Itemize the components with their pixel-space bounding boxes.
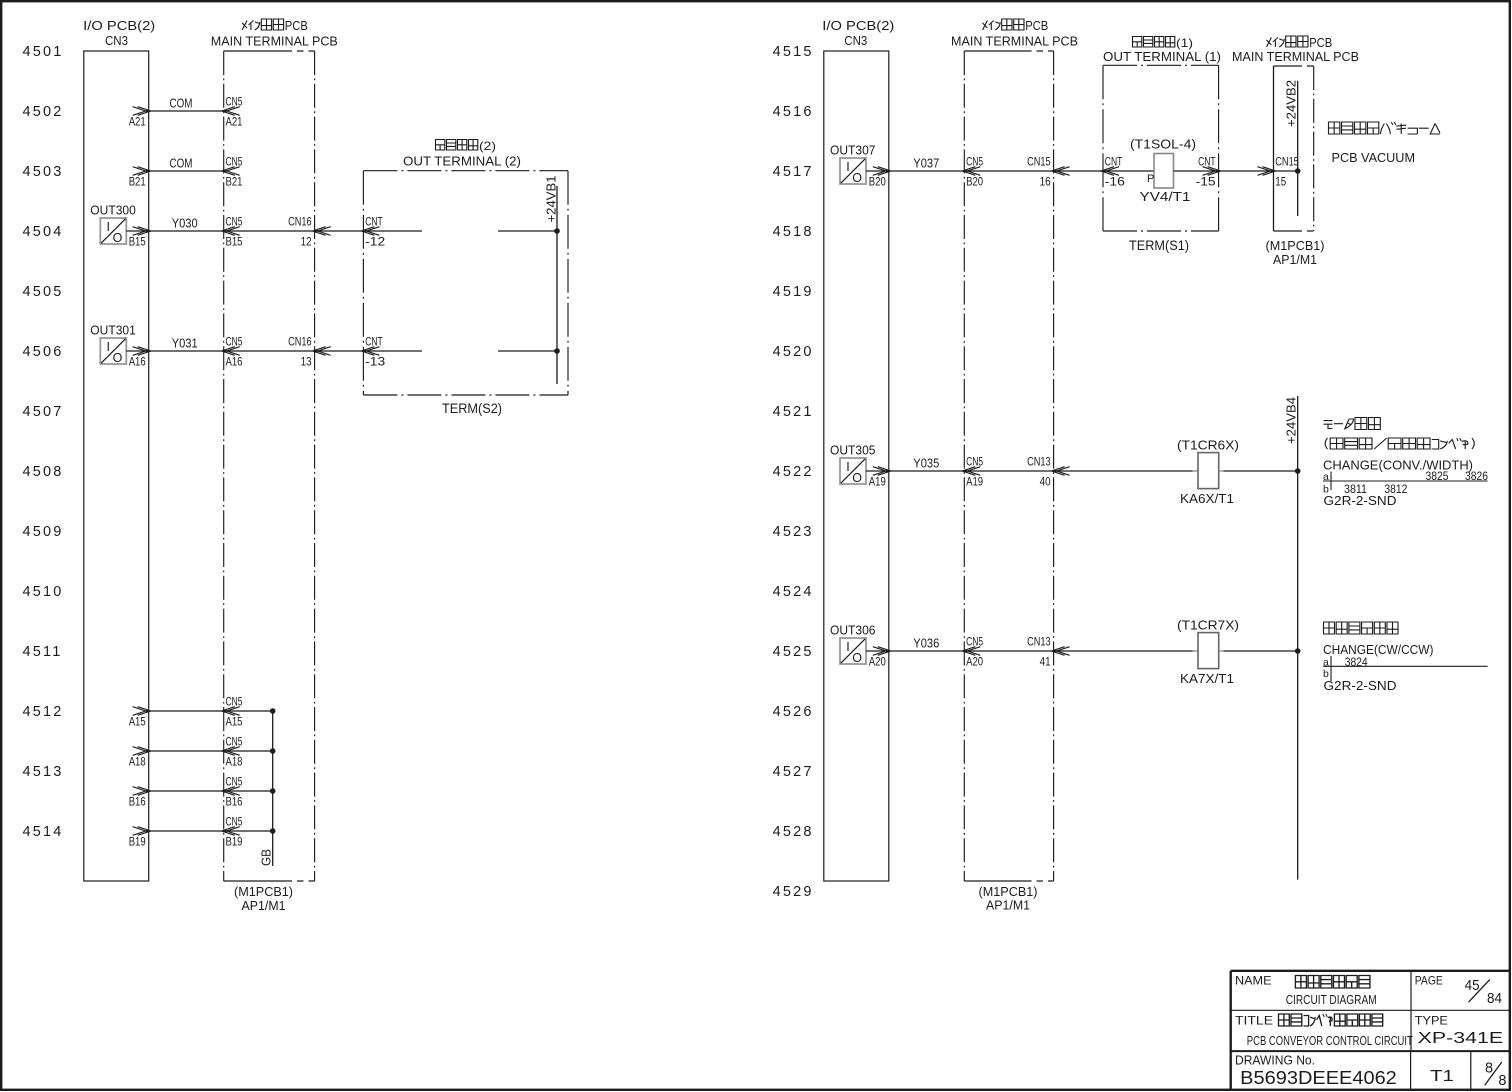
svg-text:CN5: CN5 bbox=[966, 455, 983, 469]
svg-text:O: O bbox=[852, 471, 862, 485]
svg-text:PCB: PCB bbox=[1309, 36, 1332, 50]
svg-text:B5693DEEE4062: B5693DEEE4062 bbox=[1240, 1068, 1397, 1088]
svg-text:4503: 4503 bbox=[23, 164, 64, 180]
svg-text:12: 12 bbox=[301, 235, 312, 249]
svg-text:-16: -16 bbox=[1105, 175, 1125, 189]
svg-text:YV4/T1: YV4/T1 bbox=[1140, 189, 1191, 204]
svg-text:4510: 4510 bbox=[23, 584, 64, 600]
svg-text:4505: 4505 bbox=[23, 284, 64, 300]
svg-text:4528: 4528 bbox=[773, 824, 814, 840]
svg-text:AP1/M1: AP1/M1 bbox=[1273, 252, 1317, 267]
svg-text:CN5: CN5 bbox=[966, 635, 983, 649]
svg-text:CN5: CN5 bbox=[226, 95, 243, 109]
svg-text:A20: A20 bbox=[869, 655, 886, 669]
svg-text:4522: 4522 bbox=[773, 464, 814, 480]
GB bus wire bbox=[260, 711, 274, 866]
svg-text:B21: B21 bbox=[226, 175, 243, 189]
svg-text:A19: A19 bbox=[966, 475, 983, 489]
svg-text:4517: 4517 bbox=[773, 164, 814, 180]
svg-text:4526: 4526 bbox=[773, 704, 814, 720]
rung numbers 4515-4529 bbox=[773, 44, 814, 900]
svg-text:O: O bbox=[113, 231, 123, 245]
note rotation direction change (CW/CCW) with contact cross-reference bbox=[1323, 622, 1488, 693]
svg-text:CHANGE(CW/CCW): CHANGE(CW/CCW) bbox=[1323, 642, 1434, 657]
svg-text:Y031: Y031 bbox=[172, 336, 198, 351]
svg-text:4512: 4512 bbox=[23, 704, 64, 720]
svg-text:B15: B15 bbox=[129, 235, 146, 249]
wire A15 to GB bus bbox=[129, 695, 276, 729]
wire CN13-41 MAIN TERMINAL to relay coil bbox=[964, 635, 1198, 669]
+24VB2 power rail bbox=[1284, 80, 1299, 216]
svg-text:Y036: Y036 bbox=[913, 636, 939, 651]
svg-text:TERM(S2): TERM(S2) bbox=[442, 401, 502, 416]
output module OUT301 bbox=[90, 323, 136, 366]
svg-text:B20: B20 bbox=[869, 175, 886, 189]
+24VB1 power rail bbox=[544, 176, 559, 385]
svg-text:(2): (2) bbox=[479, 139, 496, 153]
svg-text:4506: 4506 bbox=[23, 344, 64, 360]
svg-text:B20: B20 bbox=[966, 175, 983, 189]
wire Y031 MAIN TERMINAL CN16-13 to OUT TERMINAL(2) bbox=[224, 335, 386, 369]
svg-text:CN13: CN13 bbox=[1027, 455, 1051, 469]
svg-text:CN5: CN5 bbox=[226, 735, 243, 749]
svg-text:MAIN TERMINAL PCB: MAIN TERMINAL PCB bbox=[951, 34, 1078, 49]
OUT TERMINAL (2) TERM(S2) box bbox=[363, 139, 568, 416]
svg-text:4504: 4504 bbox=[23, 224, 64, 240]
svg-text:CIRCUIT DIAGRAM: CIRCUIT DIAGRAM bbox=[1286, 992, 1377, 1007]
svg-text:4502: 4502 bbox=[23, 104, 64, 120]
wire COM A21 (row 4502) bbox=[129, 95, 243, 129]
svg-text:+24VB1: +24VB1 bbox=[544, 176, 559, 223]
svg-text:4520: 4520 bbox=[773, 344, 814, 360]
svg-text:(M1PCB1): (M1PCB1) bbox=[234, 884, 293, 899]
svg-text:(1): (1) bbox=[1176, 36, 1193, 50]
svg-text:(M1PCB1): (M1PCB1) bbox=[1266, 238, 1325, 253]
svg-text:PCB: PCB bbox=[285, 19, 308, 33]
+24VB4 power rail bbox=[1284, 396, 1299, 880]
svg-text:OUT307: OUT307 bbox=[830, 143, 876, 158]
svg-text:4519: 4519 bbox=[773, 284, 814, 300]
rung numbers 4501-4514 bbox=[23, 44, 64, 840]
note motor change (CONV./WIDTH) with contact cross-reference bbox=[1323, 418, 1488, 509]
MAIN TERMINAL PCB box (right) bbox=[951, 19, 1078, 881]
svg-text:I: I bbox=[107, 220, 110, 234]
svg-text:B16: B16 bbox=[226, 795, 243, 809]
svg-text:4516: 4516 bbox=[773, 104, 814, 120]
MAIN TERMINAL PCB box (left) bbox=[211, 19, 338, 881]
title block frame bbox=[1231, 971, 1510, 1090]
svg-text:A19: A19 bbox=[869, 475, 886, 489]
svg-text:16: 16 bbox=[1040, 175, 1051, 189]
svg-text:4508: 4508 bbox=[23, 464, 64, 480]
svg-text:I: I bbox=[846, 640, 849, 654]
svg-text:CN5: CN5 bbox=[226, 155, 243, 169]
note PCB VACUUM bbox=[1329, 122, 1441, 165]
wire Y030 MAIN TERMINAL CN16-12 to OUT TERMINAL(2) bbox=[224, 215, 386, 249]
svg-text:OUT301: OUT301 bbox=[90, 323, 136, 338]
svg-text:PCB VACUUM: PCB VACUUM bbox=[1332, 150, 1416, 165]
svg-text:A16: A16 bbox=[226, 355, 243, 369]
svg-text:13: 13 bbox=[301, 355, 312, 369]
title block DRAWING No. cell: B5693DEEE4062 bbox=[1235, 1053, 1397, 1089]
svg-text:XP-341E: XP-341E bbox=[1418, 1030, 1503, 1047]
I/O PCB(2) CN3 box (right) bbox=[822, 18, 894, 881]
svg-text:15: 15 bbox=[1275, 175, 1286, 189]
svg-text:41: 41 bbox=[1040, 655, 1051, 669]
output module OUT306 bbox=[830, 623, 876, 666]
svg-text:CN5: CN5 bbox=[226, 815, 243, 829]
svg-text:COM: COM bbox=[170, 156, 193, 171]
svg-text:MAIN TERMINAL PCB: MAIN TERMINAL PCB bbox=[211, 34, 338, 49]
svg-text:-15: -15 bbox=[1196, 175, 1216, 189]
svg-text:O: O bbox=[852, 651, 862, 665]
svg-text:4511: 4511 bbox=[23, 644, 63, 660]
title block TITLE cell: PCB CONVEYOR CONTROL CIRCUIT bbox=[1235, 1014, 1413, 1049]
svg-text:A21: A21 bbox=[226, 115, 243, 129]
svg-text:3824: 3824 bbox=[1345, 655, 1368, 669]
svg-text:CN15: CN15 bbox=[1027, 155, 1051, 169]
svg-text:CN13: CN13 bbox=[1027, 635, 1051, 649]
svg-text:TITLE: TITLE bbox=[1235, 1014, 1273, 1028]
svg-text:CNT: CNT bbox=[365, 215, 383, 229]
svg-text:B16: B16 bbox=[129, 795, 146, 809]
svg-text:AP1/M1: AP1/M1 bbox=[242, 898, 286, 913]
svg-text:I: I bbox=[107, 340, 110, 354]
svg-text:45: 45 bbox=[1465, 978, 1480, 994]
svg-text:NAME: NAME bbox=[1235, 974, 1272, 988]
svg-text:TYPE: TYPE bbox=[1415, 1014, 1448, 1028]
svg-text:4514: 4514 bbox=[23, 824, 64, 840]
svg-text:P: P bbox=[1147, 173, 1154, 185]
wire B19 to GB bus bbox=[129, 815, 276, 849]
svg-text:KA7X/T1: KA7X/T1 bbox=[1180, 671, 1234, 686]
title block sheet count: 8/8 bbox=[1485, 1061, 1507, 1090]
svg-text:I: I bbox=[846, 460, 849, 474]
svg-text:(T1CR7X): (T1CR7X) bbox=[1177, 618, 1239, 632]
svg-text:A16: A16 bbox=[129, 355, 146, 369]
wire Y037 I/O to MAIN TERMINAL (CN5 B20) bbox=[866, 155, 983, 189]
svg-text:4523: 4523 bbox=[773, 524, 814, 540]
svg-text:A21: A21 bbox=[129, 115, 146, 129]
svg-text:O: O bbox=[113, 351, 123, 365]
wire CNT-12 inside TERM(S2) to +24VB1 bbox=[363, 228, 559, 234]
wire relay to +24VB4 rail bbox=[1219, 468, 1301, 474]
svg-text:B21: B21 bbox=[129, 175, 146, 189]
svg-text:4518: 4518 bbox=[773, 224, 814, 240]
svg-text:+24VB2: +24VB2 bbox=[1284, 80, 1299, 127]
output module OUT307 bbox=[830, 143, 876, 186]
svg-text:-12: -12 bbox=[365, 235, 385, 249]
svg-text:CN3: CN3 bbox=[105, 33, 128, 48]
svg-text:OUT306: OUT306 bbox=[830, 623, 876, 638]
label (M1PCB1) AP1/M1 (right) bbox=[979, 884, 1038, 913]
svg-text:CN16: CN16 bbox=[288, 335, 312, 349]
svg-text:CN5: CN5 bbox=[226, 775, 243, 789]
svg-text:4515: 4515 bbox=[773, 44, 814, 60]
svg-text:4513: 4513 bbox=[23, 764, 64, 780]
svg-text:4507: 4507 bbox=[23, 404, 64, 420]
svg-text:PCB CONVEYOR CONTROL CIRCUIT: PCB CONVEYOR CONTROL CIRCUIT bbox=[1247, 1033, 1413, 1048]
svg-text:TERM(S1): TERM(S1) bbox=[1129, 238, 1189, 253]
svg-text:G2R-2-SND: G2R-2-SND bbox=[1324, 678, 1397, 693]
svg-text:OUT305: OUT305 bbox=[830, 443, 876, 458]
title block PAGE cell: 45/84 bbox=[1415, 974, 1502, 1008]
svg-text:I/O PCB(2): I/O PCB(2) bbox=[822, 18, 894, 33]
svg-text:4509: 4509 bbox=[23, 524, 64, 540]
svg-text:A15: A15 bbox=[129, 715, 146, 729]
wire B16 to GB bus bbox=[129, 775, 276, 809]
svg-text:CN3: CN3 bbox=[844, 33, 867, 48]
relay coil KA7X/T1 (T1CR7X) bbox=[1177, 618, 1239, 686]
I/O PCB(2) CN3 box (left) bbox=[83, 18, 155, 881]
svg-text:CNT: CNT bbox=[1198, 155, 1216, 169]
svg-text:OUT TERMINAL (2): OUT TERMINAL (2) bbox=[403, 154, 521, 169]
svg-text:OUT300: OUT300 bbox=[90, 203, 136, 218]
svg-text:40: 40 bbox=[1040, 475, 1051, 489]
wire A18 to GB bus bbox=[129, 735, 276, 769]
svg-text:CNT: CNT bbox=[365, 335, 383, 349]
svg-text:A18: A18 bbox=[129, 755, 146, 769]
svg-text:O: O bbox=[852, 171, 862, 185]
svg-text:4529: 4529 bbox=[773, 884, 814, 900]
svg-text:CN5: CN5 bbox=[226, 335, 243, 349]
svg-text:A20: A20 bbox=[966, 655, 983, 669]
svg-text:4525: 4525 bbox=[773, 644, 814, 660]
svg-text:8: 8 bbox=[1498, 1073, 1506, 1089]
wire Y035 I/O to MAIN TERMINAL (CN5 A19) bbox=[866, 455, 983, 489]
wire Y030 (row 4504) I/O to MAIN TERMINAL bbox=[126, 215, 242, 249]
svg-text:-13: -13 bbox=[365, 355, 385, 369]
svg-text:COM: COM bbox=[170, 96, 193, 111]
svg-text:4527: 4527 bbox=[773, 764, 814, 780]
svg-text:4521: 4521 bbox=[773, 404, 814, 420]
svg-text:I: I bbox=[846, 160, 849, 174]
svg-text:(T1CR6X): (T1CR6X) bbox=[1177, 438, 1239, 452]
wire CN13-40 MAIN TERMINAL to relay coil bbox=[964, 455, 1198, 489]
OUT TERMINAL (1) TERM(S1) box bbox=[1103, 36, 1221, 253]
wire COM B21 (row 4503) bbox=[129, 155, 243, 189]
svg-text:4501: 4501 bbox=[23, 44, 64, 60]
MAIN TERMINAL PCB box (M1PCB1, far right) bbox=[1232, 36, 1359, 267]
svg-text:Y035: Y035 bbox=[913, 456, 939, 471]
svg-text:GB: GB bbox=[260, 849, 274, 866]
svg-text:MAIN TERMINAL PCB: MAIN TERMINAL PCB bbox=[1232, 49, 1359, 64]
svg-text:CN16: CN16 bbox=[288, 215, 312, 229]
svg-text:A18: A18 bbox=[226, 755, 243, 769]
label (M1PCB1) AP1/M1 (left) bbox=[234, 884, 293, 913]
svg-text:CN5: CN5 bbox=[966, 155, 983, 169]
svg-text:B15: B15 bbox=[226, 235, 243, 249]
svg-text:B19: B19 bbox=[129, 835, 146, 849]
svg-text:8: 8 bbox=[1485, 1061, 1493, 1077]
output module OUT305 bbox=[830, 443, 876, 486]
title block NAME cell: CIRCUIT DIAGRAM bbox=[1235, 974, 1377, 1008]
svg-text:A15: A15 bbox=[226, 715, 243, 729]
output module OUT300 bbox=[90, 203, 136, 246]
svg-text:CN5: CN5 bbox=[226, 695, 243, 709]
svg-text:84: 84 bbox=[1487, 991, 1502, 1007]
wire CN15-16 MAIN TERMINAL to OUT TERMINAL(1) bbox=[964, 155, 1125, 189]
relay coil KA6X/T1 (T1CR6X) bbox=[1177, 438, 1239, 506]
svg-text:Y030: Y030 bbox=[172, 216, 198, 231]
svg-text:CHANGE(CONV./WIDTH): CHANGE(CONV./WIDTH) bbox=[1323, 458, 1473, 473]
svg-text:PCB: PCB bbox=[1025, 19, 1048, 33]
svg-text:B19: B19 bbox=[226, 835, 243, 849]
svg-text:4524: 4524 bbox=[773, 584, 814, 600]
wire CNT-15 to MAIN TERMINAL CN15-15 bbox=[1174, 155, 1301, 189]
svg-text:CN5: CN5 bbox=[226, 215, 243, 229]
svg-text:DRAWING No.: DRAWING No. bbox=[1235, 1053, 1315, 1068]
svg-text:+24VB4: +24VB4 bbox=[1284, 397, 1299, 444]
svg-text:CNT: CNT bbox=[1105, 155, 1123, 169]
svg-text:KA6X/T1: KA6X/T1 bbox=[1180, 491, 1234, 506]
wire CNT-13 inside TERM(S2) to +24VB1 bbox=[363, 348, 559, 354]
svg-text:CN15: CN15 bbox=[1275, 155, 1299, 169]
svg-text:AP1/M1: AP1/M1 bbox=[986, 898, 1030, 913]
wire relay to +24VB4 rail bbox=[1219, 648, 1301, 654]
svg-text:OUT TERMINAL (1): OUT TERMINAL (1) bbox=[1103, 49, 1221, 64]
svg-text:Y037: Y037 bbox=[913, 156, 939, 171]
svg-text:PAGE: PAGE bbox=[1415, 974, 1443, 988]
svg-text:T1: T1 bbox=[1430, 1068, 1454, 1085]
svg-text:G2R-2-SND: G2R-2-SND bbox=[1324, 493, 1397, 508]
svg-text:(T1SOL-4): (T1SOL-4) bbox=[1130, 138, 1196, 152]
wire Y031 (row 4506) I/O to MAIN TERMINAL bbox=[126, 335, 242, 369]
title block TYPE cell: XP-341E bbox=[1415, 1014, 1503, 1048]
title block sheet cell: T1 bbox=[1430, 1068, 1454, 1085]
svg-text:I/O PCB(2): I/O PCB(2) bbox=[83, 18, 155, 33]
solenoid valve YV4/T1 (T1SOL-4) bbox=[1103, 138, 1196, 204]
wire Y036 I/O to MAIN TERMINAL (CN5 A20) bbox=[866, 635, 983, 669]
